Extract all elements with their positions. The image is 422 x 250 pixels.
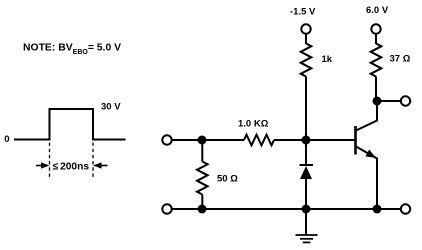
terminal circle 6.0 V (371, 24, 380, 33)
svg-text:1k: 1k (322, 54, 333, 65)
input terminal circle top left (162, 135, 171, 144)
dimension arrow right (100, 165, 108, 167)
transistor Q1 emitter arrow (365, 150, 378, 162)
dashed extension line left (49, 143, 51, 178)
wire base node to transistor base (306, 139, 355, 141)
resistor 37 ohm (371, 44, 382, 77)
transistor Q1 emitter lead (356, 147, 377, 210)
resistor 50 ohm (197, 162, 208, 195)
diode D1 anode triangle (300, 166, 312, 179)
svg-text:50 Ω: 50 Ω (217, 173, 238, 184)
resistor 1k (301, 44, 312, 77)
svg-text:-1.5 V: -1.5 V (290, 7, 316, 18)
wire diode to ground node (305, 179, 307, 209)
dimension arrow left (36, 165, 43, 167)
svg-text:1.0 KΩ: 1.0 KΩ (238, 118, 269, 129)
diode D1 cathode bar (300, 164, 314, 166)
wire 37 ohm resistor to collector node (375, 77, 377, 102)
input terminal circle bottom left (162, 204, 171, 213)
wire 1.0 K resistor to base node (274, 139, 306, 141)
wire 1k resistor to base node (305, 77, 307, 141)
resistor 1.0 Kohm (244, 135, 274, 146)
ground symbol (296, 235, 318, 242)
dashed extension line right (92, 143, 94, 178)
ground rail wire (172, 208, 401, 210)
node input top (198, 136, 207, 145)
node emitter rail (373, 205, 382, 214)
svg-text:≤200ns: ≤200ns (53, 161, 90, 172)
transistor Q1 collector lead (356, 101, 377, 131)
svg-text:0: 0 (4, 134, 9, 145)
wire input terminal to node (172, 139, 202, 141)
node ground rail center (302, 205, 311, 214)
terminal circle -1.5 V (301, 24, 310, 33)
svg-text:NOTE: BVEBO= 5.0 V: NOTE: BVEBO= 5.0 V (23, 43, 121, 57)
pulse waveform trace (14, 109, 126, 140)
transistor Q1 base bar (354, 126, 357, 155)
wire 6.0V terminal to 37 ohm resistor (375, 34, 377, 44)
wire ground node to ground symbol (305, 209, 307, 235)
wire base node to diode (305, 140, 307, 165)
wire 50 ohm to bottom node (201, 195, 203, 210)
wire collector node to output terminal (377, 100, 401, 102)
svg-text:30 V: 30 V (101, 101, 121, 112)
output terminal circle bottom right (401, 204, 410, 213)
wire node to 1.0 K resistor (202, 139, 244, 141)
wire top node to 50 ohm (201, 140, 203, 162)
output terminal circle top right (401, 96, 410, 105)
node base (302, 136, 311, 145)
node input bottom (198, 205, 207, 214)
svg-text:6.0 V: 6.0 V (366, 5, 389, 16)
wire -1.5V terminal to 1k resistor (305, 34, 307, 44)
svg-text:37 Ω: 37 Ω (390, 54, 411, 65)
node collector (373, 97, 382, 106)
